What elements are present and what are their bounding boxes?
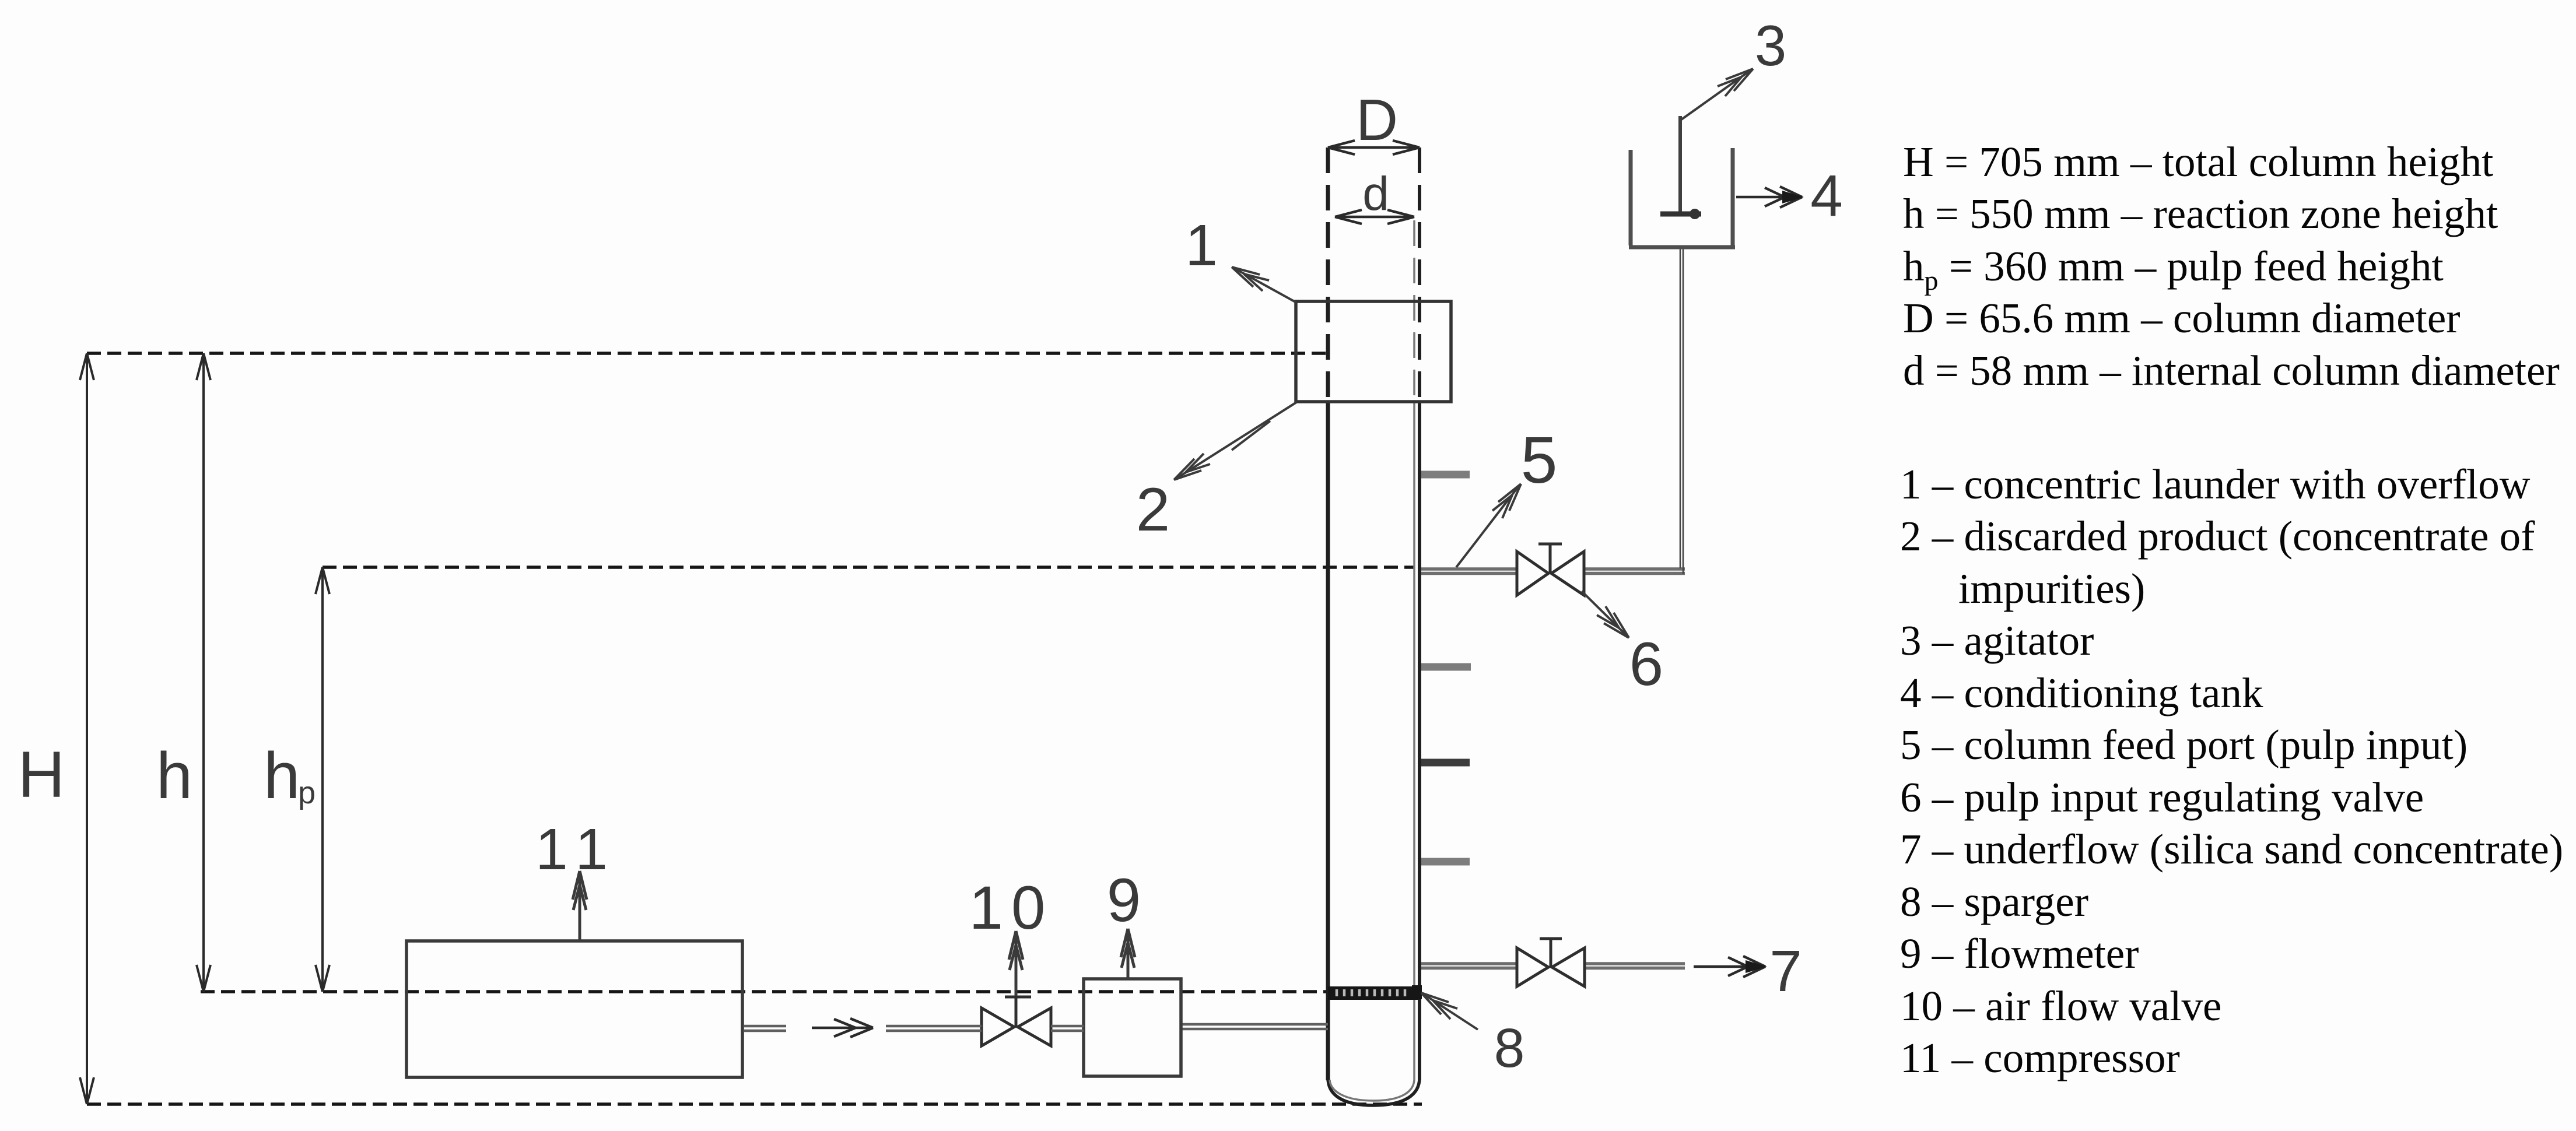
legend items block — [1900, 461, 2563, 1081]
air pipe flowmeter to column — [1181, 1024, 1328, 1029]
svg-text:8: 8 — [1494, 1017, 1525, 1079]
svg-text:1 – concentric launder with ov: 1 – concentric launder with overflow — [1900, 461, 2531, 508]
flow direction arrow — [812, 1018, 873, 1037]
legend dimensions block — [1903, 138, 2560, 394]
svg-text:3: 3 — [1755, 13, 1787, 78]
svg-text:11: 11 — [535, 817, 619, 882]
svg-text:h = 550 mm – reaction zone hei: h = 550 mm – reaction zone height — [1903, 190, 2498, 237]
svg-text:2: 2 — [1136, 476, 1170, 544]
svg-text:9 – flowmeter: 9 – flowmeter — [1900, 930, 2139, 977]
agitator paddle — [1660, 212, 1701, 217]
callout arrow 10 — [1009, 931, 1023, 996]
dimension line h — [197, 353, 211, 992]
underflow pipe (element 7) — [1421, 964, 1685, 968]
svg-text:8 – sparger: 8 – sparger — [1900, 878, 2088, 925]
column outer wall right (dashed above, solid below) — [1418, 147, 1421, 402]
svg-text:4: 4 — [1810, 163, 1843, 229]
compressor box (element 11) — [406, 941, 742, 1077]
svg-text:4 – conditioning tank: 4 – conditioning tank — [1900, 669, 2263, 716]
svg-text:6 – pulp input regulating valv: 6 – pulp input regulating valve — [1900, 774, 2424, 821]
callout arrow 1 — [1232, 267, 1296, 303]
callout arrow 8 — [1421, 993, 1478, 1030]
pipe from conditioning tank — [1680, 247, 1683, 574]
air pipes around valve 10 — [744, 1026, 1084, 1031]
callout arrow 3 — [1681, 69, 1753, 120]
svg-text:H: H — [18, 738, 65, 811]
svg-text:d = 58 mm – internal column di: d = 58 mm – internal column diameter — [1903, 347, 2560, 394]
column inner wall right (gray) — [1413, 220, 1415, 402]
svg-text:10: 10 — [969, 874, 1054, 942]
callout arrow 2 (double line) — [1174, 402, 1296, 480]
svg-text:h: h — [156, 739, 192, 812]
column port stub C — [1421, 759, 1470, 767]
svg-text:1: 1 — [1185, 213, 1218, 278]
column port stub A — [1421, 471, 1470, 479]
svg-text:h: h — [264, 739, 300, 812]
column port stub B — [1421, 663, 1471, 671]
column outer wall left (dashed above, solid below) — [1326, 147, 1330, 402]
feed pipe (element 5) — [1421, 569, 1685, 574]
column port stub D — [1421, 858, 1470, 866]
svg-text:impurities): impurities) — [1958, 565, 2145, 612]
dimension line H — [80, 353, 94, 1104]
valve 10 (air flow valve) — [982, 997, 1051, 1046]
svg-text:hp = 360 mm – pulp feed height: hp = 360 mm – pulp feed height — [1903, 243, 2444, 296]
callout arrow 9 — [1121, 929, 1135, 979]
dimension line hp — [316, 567, 330, 992]
svg-text:2 – discarded product (concent: 2 – discarded product (concentrate of — [1900, 512, 2535, 560]
callout arrow 6 — [1582, 591, 1629, 638]
dashed line h/hp bottom reference — [201, 990, 1327, 993]
flow arrow 4 (tank overflow) — [1736, 187, 1802, 208]
sparger (element 8) — [1328, 985, 1422, 1000]
svg-text:d: d — [1362, 167, 1389, 220]
conditioning tank (element 4) — [1629, 148, 1735, 247]
svg-text:9: 9 — [1107, 866, 1141, 935]
column bottom inner curve — [1330, 1080, 1414, 1101]
svg-text:5 – column feed port (pulp inp: 5 – column feed port (pulp input) — [1900, 721, 2468, 768]
svg-text:11 – compressor: 11 – compressor — [1900, 1034, 2180, 1081]
dashed line bottom (H bottom reference) — [87, 1102, 1422, 1106]
launder box (element 1) — [1296, 301, 1451, 402]
flowmeter box (element 9) — [1084, 979, 1181, 1076]
dimension line d — [1335, 210, 1414, 224]
underflow valve — [1517, 939, 1585, 986]
svg-text:3 – agitator: 3 – agitator — [1900, 617, 2094, 664]
svg-text:6: 6 — [1629, 630, 1663, 698]
dashed line top (H/h top reference) — [87, 352, 1327, 355]
column bottom outer curve — [1328, 1078, 1420, 1105]
svg-text:D: D — [1356, 87, 1398, 153]
callout arrow 5 — [1456, 484, 1521, 567]
valve 6 (pulp input regulating valve) — [1517, 544, 1584, 595]
dashed line hp top reference — [323, 565, 1414, 569]
callout arrow 11 — [573, 871, 587, 941]
svg-text:10 – air flow valve: 10 – air flow valve — [1900, 982, 2221, 1030]
svg-text:H = 705 mm – total column heig: H = 705 mm – total column height — [1903, 138, 2493, 185]
svg-text:D = 65.6 mm – column diameter: D = 65.6 mm – column diameter — [1903, 294, 2461, 342]
svg-text:5: 5 — [1521, 423, 1558, 497]
svg-text:7: 7 — [1769, 939, 1802, 1004]
agitator shaft (element 3) — [1678, 116, 1682, 215]
flow arrow 7 — [1694, 956, 1765, 977]
dimension line D — [1328, 141, 1420, 154]
svg-text:p: p — [298, 775, 316, 810]
svg-text:7 – underflow (silica sand con: 7 – underflow (silica sand concentrate) — [1900, 826, 2563, 873]
